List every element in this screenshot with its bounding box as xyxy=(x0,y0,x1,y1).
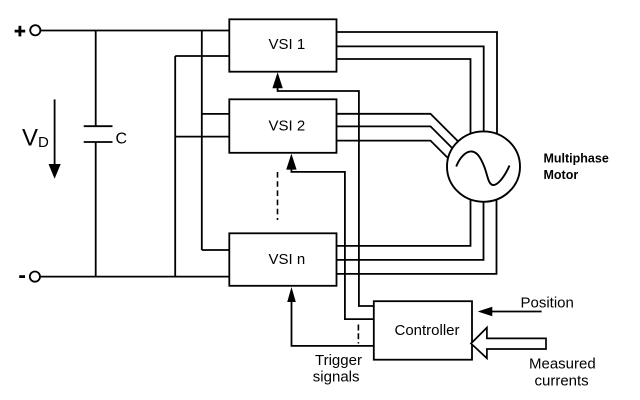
wire VSI n phase output a xyxy=(336,192,471,246)
svg-text:Trigger: Trigger xyxy=(315,352,362,369)
label - xyxy=(19,275,25,278)
position signal wire xyxy=(490,311,542,313)
arrowhead trigger VSI n xyxy=(287,287,296,302)
wire VSI1 phase output c xyxy=(336,59,471,142)
wire vertical feeder negative (to VSI1 and VSI2) xyxy=(174,56,176,277)
svg-text:Multiphase: Multiphase xyxy=(544,152,609,166)
wire top DC bus xyxy=(41,30,231,32)
svg-text:currents: currents xyxy=(535,372,589,389)
arrow VD (DC link voltage) xyxy=(54,99,56,166)
wire VSI n positive input xyxy=(202,249,230,251)
wire VSI1 phase output b xyxy=(336,46,484,140)
arrowhead position xyxy=(478,307,493,317)
dashed continuation trigger lines xyxy=(357,325,359,344)
motor circle xyxy=(447,131,520,201)
svg-text:Controller: Controller xyxy=(395,322,460,339)
wire VSI2 phase output a xyxy=(336,114,462,146)
trigger wire to VSI1 xyxy=(278,87,374,306)
svg-text:C: C xyxy=(116,131,128,148)
wire vertical feeder positive (to VSI2 and VSI n) xyxy=(201,31,203,251)
arrowhead trigger VSI2 xyxy=(286,154,296,170)
box VSI 2 xyxy=(229,99,336,153)
box VSI n xyxy=(229,233,336,285)
wire VSI1 phase output a xyxy=(336,32,497,140)
svg-text:signals: signals xyxy=(313,368,360,385)
trigger wire to VSI2 xyxy=(291,168,373,319)
svg-text:VSI 2: VSI 2 xyxy=(269,118,306,135)
arrowhead trigger VSI1 xyxy=(272,72,282,88)
box VSI 1 xyxy=(229,19,336,71)
svg-text:Measured: Measured xyxy=(529,355,596,372)
svg-text:VSI n: VSI n xyxy=(269,251,306,268)
capacitor C top lead xyxy=(95,31,97,127)
capacitor C plates xyxy=(84,125,113,127)
svg-text:Position: Position xyxy=(521,295,574,312)
box Controller xyxy=(374,301,472,360)
dashed continuation between VSI2 and VSI n xyxy=(277,172,279,220)
motor sine wave xyxy=(456,151,509,185)
label + xyxy=(15,26,26,37)
measured currents arrow xyxy=(471,328,546,359)
capacitor C bottom lead xyxy=(95,142,97,277)
wire bottom DC bus xyxy=(40,276,230,278)
wire VSI2 phase output c xyxy=(336,141,453,164)
trigger wire to VSI n xyxy=(292,300,374,346)
wire VSI1 negative input xyxy=(175,55,230,57)
svg-text:VSI 1: VSI 1 xyxy=(269,36,306,53)
wire VSI n phase output b xyxy=(336,192,484,260)
wire VSI2 positive input xyxy=(202,113,230,115)
terminal + xyxy=(30,25,40,35)
wire VSI2 phase output b xyxy=(336,126,457,152)
terminal - xyxy=(30,272,40,282)
wire VSI n phase output c xyxy=(336,192,497,274)
svg-text:Motor: Motor xyxy=(544,168,579,182)
wire VSI2 negative input xyxy=(175,136,230,138)
